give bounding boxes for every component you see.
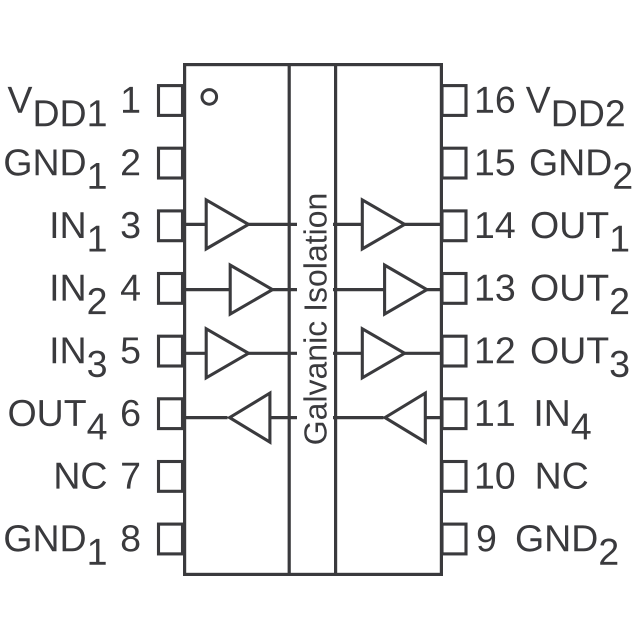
pin 2 number [122, 149, 139, 175]
pin 14 square [442, 211, 466, 241]
buffer B3 channel 3 right [362, 329, 404, 378]
pin 16 name VDD2 [526, 87, 624, 126]
pin 1 indicator circle [202, 90, 217, 105]
pin 9 name GND2 [517, 525, 617, 565]
pin 3 square [159, 211, 183, 241]
pin 2 name GND1 [5, 149, 106, 189]
pin 3 name IN1 [53, 212, 106, 251]
pin 6 name OUT4 [9, 400, 106, 440]
pin 8 square [159, 524, 183, 554]
pin 15 number [477, 150, 514, 176]
pin 12 name OUT3 [532, 337, 629, 377]
pin 7 square [159, 462, 183, 492]
pin 10 number [477, 462, 514, 489]
pin 14 number [477, 212, 515, 238]
pin 2 square [159, 148, 183, 178]
wire pin6 to buffer A4 apex [183, 416, 228, 419]
buffer A1 channel 1 left [206, 200, 248, 249]
galvanic isolation label [303, 195, 327, 444]
pin 15 square [442, 148, 466, 178]
wire buffer A4 base across isolation to buffer B4 apex [269, 416, 384, 419]
pin 11 square [442, 399, 466, 429]
pin 5 number [122, 338, 140, 364]
pin 15 name GND2 [531, 149, 631, 189]
buffer A3 channel 3 left [206, 329, 248, 378]
pin 5 square [159, 336, 183, 366]
pin 10 name NC [538, 462, 588, 489]
pin 9 square [442, 524, 466, 554]
pin 12 square [442, 336, 466, 366]
wire buffer B3 apex to pin12 [402, 352, 442, 355]
isolation barrier left line [288, 65, 291, 575]
pin 11 number [477, 400, 514, 426]
pin 8 name GND1 [5, 525, 106, 565]
buffer B1 channel 1 right [362, 200, 404, 249]
buffer A2 channel 2 left [230, 265, 272, 314]
wire pin4 to buffer A2 [183, 288, 232, 291]
pin 7 name NC [56, 462, 106, 489]
pin 1 name VDD1 [8, 87, 106, 126]
pin 14 name OUT1 [532, 212, 628, 252]
wire buffer A1 apex across isolation to buffer B1 [246, 223, 364, 226]
pin 7 number [122, 463, 139, 489]
wire buffer B1 apex to pin14 [402, 223, 442, 226]
wire pin3 to buffer A1 [183, 223, 208, 226]
buffer B2 channel 2 right [385, 265, 427, 314]
pin 5 name IN3 [53, 338, 106, 378]
wire buffer A3 apex across isolation to buffer B3 [246, 352, 364, 355]
IC body outline [185, 65, 442, 575]
pin 9 number [478, 525, 495, 552]
pin 1 square [159, 86, 183, 116]
buffer B4 channel 4 right (points left) [385, 393, 425, 442]
white box behind isolation label [297, 185, 333, 455]
pin 13 number [477, 274, 514, 301]
pin 6 square [159, 399, 183, 429]
pin 16 square [442, 86, 466, 116]
pin 16 number [477, 87, 514, 114]
pin 13 square [442, 274, 466, 304]
wire buffer B2 apex to pin13 [425, 288, 443, 291]
pin 11 name IN4 [537, 400, 591, 439]
pin 12 number [477, 337, 514, 363]
wire buffer A2 apex across isolation to buffer B2 [270, 288, 387, 291]
pin 6 number [122, 400, 139, 427]
isolation barrier right line [334, 65, 337, 575]
pin 13 name OUT2 [532, 274, 628, 314]
wire pin5 to buffer A3 [183, 352, 208, 355]
buffer A4 channel 4 left (points left) [230, 393, 270, 442]
pin 4 number [121, 275, 140, 301]
pin 10 square [442, 462, 466, 492]
pin 4 square [159, 274, 183, 304]
pin 1 number [123, 87, 139, 113]
wire buffer B4 base to pin11 [424, 416, 442, 419]
pin 3 number [122, 212, 140, 239]
pin 8 number [122, 525, 140, 552]
pin 4 name IN2 [53, 275, 106, 314]
